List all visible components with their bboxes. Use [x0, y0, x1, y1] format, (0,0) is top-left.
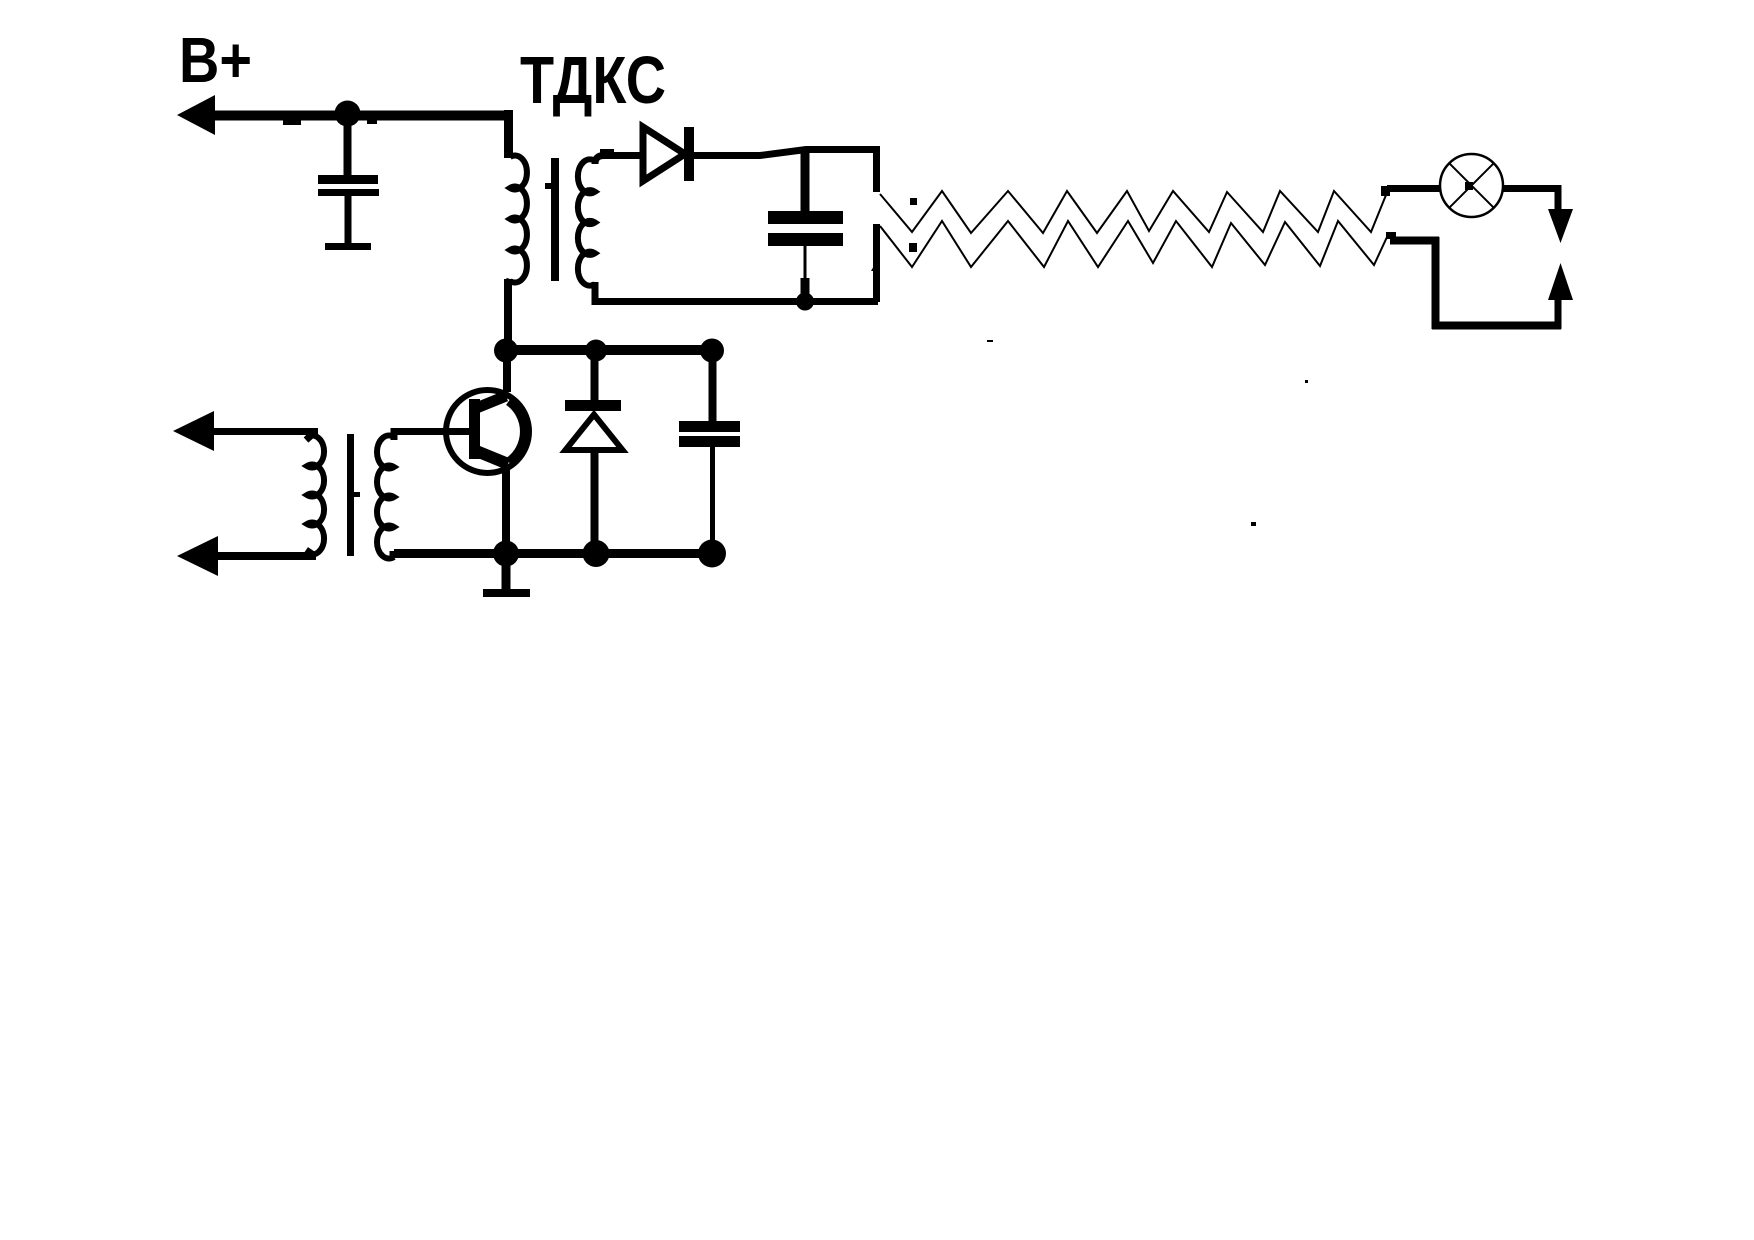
- arrow up spark gap: [1548, 263, 1573, 300]
- capacitor C1: [318, 175, 378, 184]
- resistor R1 upper zigzag: [880, 191, 1386, 233]
- node cap C3 junction bottom: [698, 540, 726, 568]
- wire to lamp left: [1387, 185, 1441, 192]
- ground: [502, 553, 511, 590]
- wire right vertical upper: [873, 146, 880, 192]
- diode D2 damper wire top: [591, 350, 599, 403]
- arrow down spark gap: [1548, 209, 1573, 243]
- node damper junction top: [585, 340, 607, 362]
- wire primary to collector node: [504, 279, 512, 352]
- wire lamp right: [1502, 185, 1562, 192]
- transistor Q1: [446, 390, 529, 473]
- node emitter junction bottom: [493, 541, 519, 567]
- wire T2 right top to base: [394, 432, 473, 441]
- wire T2 right bottom / bottom bus: [394, 551, 716, 554]
- capacitor C2 lead bottom: [804, 246, 807, 280]
- wire emitter down: [502, 470, 510, 554]
- speck dots: [910, 198, 917, 205]
- wire left side of loop up: [1432, 237, 1440, 329]
- arrow tip upper zigzag end: [1381, 186, 1390, 196]
- wire below up arrow: [1555, 298, 1562, 329]
- speck dash: [987, 340, 993, 342]
- diode D1: [643, 127, 685, 181]
- wire C1 to ground: [345, 196, 352, 244]
- node damper junction bottom: [583, 540, 610, 567]
- transformer T2 arrow lower: [177, 536, 218, 576]
- capacitor C3: [679, 421, 740, 432]
- transformer T2 right winding: [377, 436, 394, 559]
- speck dot: [1251, 522, 1256, 526]
- resistor R1 lower zigzag: [880, 221, 1387, 267]
- wire connector to resistor: [1390, 237, 1439, 245]
- svg-text:ТДКС: ТДКС: [520, 43, 666, 118]
- wire B+ corner down to primary: [504, 110, 513, 158]
- wire T2 lower: [210, 552, 316, 560]
- wire T2 upper: [205, 428, 318, 435]
- wire B+ horizontal: [205, 111, 513, 121]
- capacitor C2: [768, 211, 843, 224]
- capacitor C3 wire top: [709, 350, 717, 422]
- capacitor C1 lead: [344, 120, 352, 176]
- node collector junction: [494, 339, 518, 363]
- node cap C3 junction top: [700, 339, 724, 363]
- wire bottom of lamp loop: [1432, 322, 1561, 330]
- lamp HL1: [1440, 154, 1503, 217]
- wire secondary bottom return: [595, 282, 878, 302]
- ground C1: [325, 243, 371, 250]
- transformer T2 core: [347, 434, 354, 556]
- wire collector up: [503, 352, 511, 392]
- svg-text:В+: В+: [179, 24, 252, 96]
- arrow B+ output: [177, 95, 215, 135]
- wire right vertical lower: [873, 224, 880, 302]
- transformer T2 left winding: [307, 436, 324, 555]
- diode D2 wire bottom: [591, 452, 599, 554]
- wire nub left: [283, 118, 301, 125]
- wire D1 cathode to corner: [694, 150, 877, 156]
- node junction B+/C1: [335, 101, 361, 127]
- top bus wire: [506, 345, 716, 355]
- transformer T1 core: [551, 158, 559, 281]
- diode D2 damper: [565, 400, 621, 411]
- transformer T2 arrow upper: [173, 411, 214, 451]
- node C2 return junction: [796, 293, 814, 311]
- capacitor C3 wire bottom: [710, 447, 715, 554]
- capacitor C2 lead top: [801, 150, 810, 212]
- arrow tip lower zigzag end: [1386, 232, 1396, 239]
- wire secondary top to diode: [595, 156, 644, 165]
- wire nub right: [367, 118, 377, 124]
- transformer T1 secondary winding: [578, 159, 595, 285]
- arrow mark on wire: [871, 257, 879, 271]
- wire right side down: [1555, 185, 1562, 212]
- transformer T1 primary winding: [510, 156, 527, 283]
- speck tick: [1305, 380, 1308, 383]
